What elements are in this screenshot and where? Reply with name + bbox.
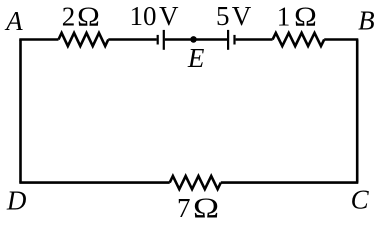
svg-text:Ω: Ω	[193, 191, 219, 223]
node E junction dot	[190, 36, 197, 43]
resistor 7 ohm	[170, 176, 221, 189]
svg-text:Ω: Ω	[294, 2, 317, 32]
wire bottom: D corner to resistor 7 ohm	[19, 181, 169, 184]
wire bottom: 7 ohm resistor to C corner	[221, 181, 358, 184]
label 2 ohm value	[62, 1, 100, 32]
svg-text:7: 7	[177, 193, 191, 223]
label 5 V value	[216, 1, 252, 31]
svg-text:A: A	[4, 6, 23, 36]
label 1 ohm value	[277, 1, 317, 32]
svg-text:1: 1	[277, 1, 291, 31]
wire: 10V battery to node E	[165, 38, 194, 41]
wire: 2 ohm resistor to 10V battery	[108, 38, 156, 41]
resistor 2 ohm	[59, 33, 109, 46]
svg-text:5: 5	[216, 1, 230, 31]
wire: node E to 5V battery	[194, 38, 228, 41]
wire: 5V battery to resistor 1 ohm	[236, 38, 273, 41]
battery 5V long plate (positive, left)	[227, 30, 229, 50]
svg-text:V: V	[159, 1, 179, 31]
wire left vertical A-D	[19, 40, 22, 183]
svg-text:B: B	[358, 6, 375, 36]
svg-text:10: 10	[130, 1, 157, 31]
battery 5V short plate (negative, right)	[233, 35, 235, 45]
svg-text:V: V	[232, 1, 252, 31]
svg-text:C: C	[351, 185, 370, 215]
svg-text:E: E	[187, 43, 205, 73]
svg-text:Ω: Ω	[77, 2, 100, 32]
svg-text:D: D	[6, 186, 27, 216]
label 7 ohm value	[177, 191, 219, 223]
svg-text:2: 2	[62, 1, 76, 31]
wire right vertical B-C	[356, 40, 359, 183]
resistor 1 ohm	[273, 33, 325, 46]
battery 10V short plate (negative, left)	[157, 35, 159, 45]
label 10 V value	[130, 1, 180, 31]
battery 10V long plate (positive, right)	[163, 30, 165, 50]
wire: 1 ohm resistor to B corner	[324, 38, 358, 41]
wire top: A corner to resistor R(2ohm)	[19, 38, 58, 41]
